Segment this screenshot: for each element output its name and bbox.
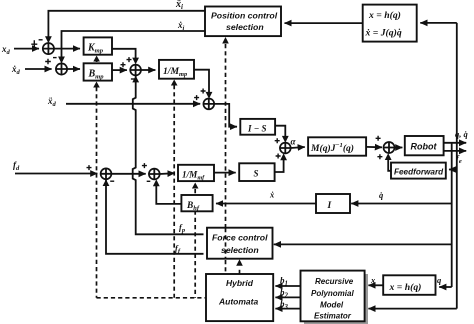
block Robot	[405, 136, 444, 155]
svg-text:Recursive: Recursive	[315, 277, 354, 286]
block x=h(q), xdot=J(q)qdot (top right)	[363, 5, 417, 42]
block B_hf	[181, 195, 212, 211]
arrow into B_mp bottom from adaptation	[93, 82, 100, 88]
wire: b3 RPME to Hybrid Automata	[275, 308, 300, 310]
wire: S5 to 1/M_mf	[160, 172, 175, 175]
wire: S output up to Sα	[275, 157, 284, 172]
wire: dashed overlay on FCS	[225, 228, 227, 258]
summing junction S-alpha	[280, 143, 291, 154]
wire: I output to B_hf	[216, 203, 316, 205]
svg-text:Estimator: Estimator	[314, 312, 352, 321]
svg-text:ẋ = J(q)q̇: ẋ = J(q)q̇	[365, 27, 402, 38]
shadow for RPME	[304, 274, 368, 324]
wire: V1 bottom to RPME (f_e feedback)	[368, 308, 456, 310]
wire: 1/M_mp output to S3 (right, down)	[194, 70, 209, 96]
wire: V2 branch into Force control selection right	[274, 243, 452, 245]
wire: Robot output f_e	[444, 150, 467, 152]
block I-S	[240, 119, 275, 135]
block Position control selection	[205, 7, 281, 37]
wire: V1 top to x=h(q),J block	[420, 22, 457, 24]
svg-text:Model: Model	[320, 301, 344, 310]
wire: f_p line from S2b down to Force control selection (with jogs)	[133, 76, 204, 235]
block 1/M_mf	[178, 165, 214, 181]
svg-text:x = h(q): x = h(q)	[389, 282, 422, 293]
svg-text:M(q)J−1(q): M(q)J−1(q)	[310, 142, 354, 154]
svg-text:Feedforward: Feedforward	[394, 168, 444, 177]
svg-text:selection: selection	[226, 22, 264, 32]
wire: feedback vertical V1	[456, 23, 458, 309]
summing junction S2	[56, 63, 67, 74]
wire: dashed adaptation line to 1/M_mf (passes behind B_hf)	[194, 189, 196, 298]
arrow into 1/M_mf bottom from adaptation	[192, 183, 199, 189]
svg-text:Robot: Robot	[411, 142, 438, 152]
summing junction S3	[203, 99, 214, 110]
summing junction S4	[101, 168, 112, 179]
svg-text:I − S: I − S	[247, 124, 266, 134]
svg-text:Force control: Force control	[212, 233, 268, 243]
wire: Feedforward output up to Sr	[388, 157, 391, 171]
wire: f_f line from S4 down to Force control selection	[106, 179, 204, 254]
svg-text:Automata: Automata	[218, 297, 258, 307]
wire: S1 to K_mp	[54, 48, 80, 50]
wire: S2b output to 1/M_mp	[141, 69, 155, 71]
wire: f_d input to S4	[15, 173, 97, 175]
wire: K_mp output to S2b (down)	[112, 49, 136, 61]
wire: V2 branch qdot to I block	[351, 203, 452, 205]
wire: B_hf output left and up to S5	[156, 183, 181, 204]
svg-text:Position control: Position control	[211, 11, 278, 21]
wire: ẍi feedback from Position control selection to S1	[48, 11, 205, 40]
block Hybrid Automata	[206, 274, 273, 321]
wire: ẍ_d input to S3	[66, 103, 200, 105]
wire: B_mp output to S2b	[112, 69, 127, 71]
block B_mp	[84, 63, 112, 80]
wire: V2 branch to Feedforward	[449, 169, 452, 171]
svg-text:Hybrid: Hybrid	[226, 278, 254, 288]
block x=h(q) (bottom)	[383, 275, 435, 295]
arrow into S2b bottom (f_p)	[132, 76, 139, 83]
block M(q)J^-1(q)	[308, 137, 366, 155]
wire: ẋ_d input to S2	[25, 68, 52, 70]
svg-text:x = h(q): x = h(q)	[368, 10, 401, 21]
svg-text:selection: selection	[221, 245, 259, 255]
svg-text:x: x	[370, 275, 376, 285]
wire: 1/M_mf output to S block	[214, 172, 236, 174]
block Feedforward	[391, 163, 446, 179]
wire: b1 RPME to Hybrid Automata	[275, 285, 300, 287]
arrow into 1/M_mp bottom from adaptation	[171, 80, 178, 86]
wire: dashed adaptation line to B_mp/K_mp	[96, 87, 98, 298]
block I	[316, 194, 350, 213]
block K_mp	[84, 37, 112, 54]
wire: Sα output to M(q)J⁻¹(q)	[291, 147, 305, 148]
wire: S4 to S5	[111, 173, 145, 175]
wire: ẋi feedback from Position control selection to S2	[62, 31, 206, 60]
summing junction Sr	[384, 142, 395, 153]
summing junction S5	[149, 169, 160, 180]
wire: b2 RPME to Hybrid Automata	[275, 296, 300, 298]
wire: feedback vertical V2	[451, 143, 453, 287]
wire: x_d input to S1	[14, 48, 39, 50]
arrow into K_mp bottom from adaptation	[96, 60, 98, 62]
wire: dashed adaptation line to 1/M_mp	[173, 85, 175, 298]
block 1/M_mp	[159, 60, 194, 79]
wire: Sr output to Robot	[395, 147, 403, 149]
block Recursive Polynomial Model Estimator	[301, 271, 365, 322]
svg-text:I: I	[327, 201, 332, 211]
wire: x=h(q) output to RPME	[368, 284, 383, 286]
wire: V2 down to x=h(q) bottom block	[439, 286, 452, 288]
wire: Robot output q,qdot	[444, 142, 467, 144]
wire: S2 to B_mp	[67, 68, 80, 70]
wire: Hybrid Automata to Force control selection	[239, 268, 241, 275]
block Force control selection	[207, 228, 273, 259]
wire: dashed horizontal bus to Hybrid Automata	[97, 297, 206, 299]
svg-text:Polynomial: Polynomial	[311, 289, 354, 298]
block S	[239, 163, 274, 181]
wire: I-S output down to Sα	[275, 126, 285, 140]
summing junction S2b	[130, 65, 141, 76]
svg-text:ẋ: ẋ	[269, 190, 275, 200]
svg-text:S: S	[254, 169, 259, 179]
wire: S3 output to I-S block	[214, 104, 237, 127]
summing junction S1	[43, 43, 54, 54]
wire: dashed selection line from Hybrid Automata up to Position control selection	[225, 44, 227, 274]
wire: top block to Position control selection	[285, 22, 363, 24]
wire: M(q)J⁻¹(q) output to Sr	[366, 146, 382, 148]
